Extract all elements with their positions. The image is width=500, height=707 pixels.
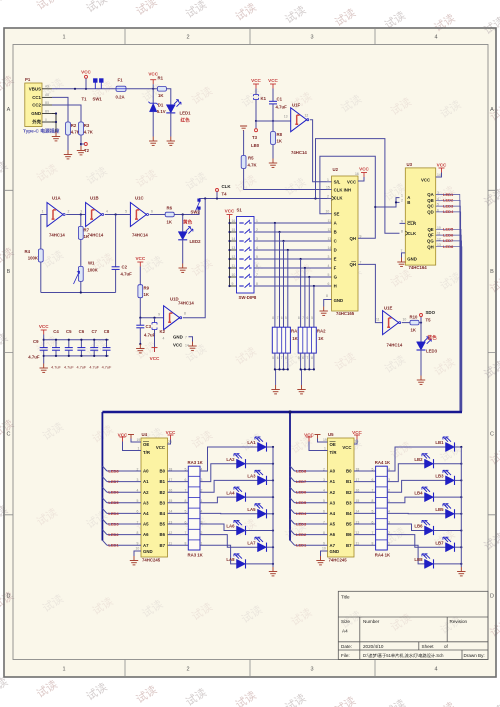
wire U4 input LED1 xyxy=(102,540,107,545)
LED LB2 xyxy=(422,454,434,469)
svg-text:14: 14 xyxy=(169,510,173,514)
svg-text:R3: R3 xyxy=(84,123,90,128)
wire U1A out to U1B in xyxy=(66,214,85,216)
resistor R3 xyxy=(79,122,84,135)
svg-text:A6: A6 xyxy=(330,532,336,537)
svg-text:15: 15 xyxy=(326,186,330,190)
resistor R10 xyxy=(410,320,419,325)
potentiometer W1 xyxy=(78,266,83,281)
svg-text:RA3 1K: RA3 1K xyxy=(188,460,204,465)
svg-text:红色: 红色 xyxy=(181,117,191,124)
capacitor C9 xyxy=(43,335,45,348)
svg-text:A5: A5 xyxy=(330,522,336,527)
svg-text:OE: OE xyxy=(330,442,336,447)
test point T1 xyxy=(85,75,88,78)
svg-text:10: 10 xyxy=(403,318,407,322)
svg-text:13: 13 xyxy=(284,115,288,119)
svg-text:8: 8 xyxy=(298,316,300,320)
svg-text:VCC: VCC xyxy=(251,78,261,83)
svg-text:15: 15 xyxy=(232,228,236,232)
svg-text:LED3: LED3 xyxy=(296,521,307,526)
svg-text:W1: W1 xyxy=(88,261,95,266)
svg-text:QH: QH xyxy=(350,262,356,267)
wire U4 B4 to RA3 xyxy=(168,512,189,514)
svg-text:A7: A7 xyxy=(143,543,149,548)
svg-text:GND: GND xyxy=(31,111,41,116)
svg-text:6: 6 xyxy=(277,356,279,360)
svg-text:18: 18 xyxy=(169,467,173,471)
svg-text:LED2: LED2 xyxy=(190,239,202,244)
svg-text:5: 5 xyxy=(298,356,300,360)
svg-text:16: 16 xyxy=(355,172,359,176)
wire U5 B0 to RA4 xyxy=(354,470,376,472)
svg-text:LED7: LED7 xyxy=(296,479,307,484)
svg-text:R9: R9 xyxy=(144,286,150,291)
svg-text:4: 4 xyxy=(137,489,139,493)
svg-text:1K: 1K xyxy=(292,336,298,341)
svg-text:C6: C6 xyxy=(79,329,85,334)
wire U3 QG / net LED7 xyxy=(436,241,462,412)
svg-text:SW2: SW2 xyxy=(191,210,201,215)
svg-text:QH: QH xyxy=(427,244,433,249)
svg-text:LED8: LED8 xyxy=(108,468,119,473)
svg-text:D: D xyxy=(334,248,337,253)
svg-text:3: 3 xyxy=(80,210,82,214)
wire S1 pin 3 to U2 xyxy=(254,240,332,242)
svg-text:QE: QE xyxy=(427,227,433,232)
wire U5 B7 to RA4 xyxy=(354,544,376,546)
svg-text:3: 3 xyxy=(323,478,325,482)
svg-text:B4: B4 xyxy=(346,511,352,516)
svg-text:12: 12 xyxy=(169,531,173,535)
svg-text:C9: C9 xyxy=(33,339,39,344)
wire CLK net xyxy=(199,198,327,200)
power port VCC (U5 T/R) xyxy=(306,437,312,442)
svg-text:8: 8 xyxy=(185,499,187,503)
svg-text:C1: C1 xyxy=(277,97,283,102)
svg-text:4.7uF: 4.7uF xyxy=(51,366,61,370)
svg-text:4: 4 xyxy=(163,337,165,341)
svg-text:LED6: LED6 xyxy=(296,490,307,495)
svg-text:LB6: LB6 xyxy=(414,524,423,529)
svg-text:R8: R8 xyxy=(277,132,283,137)
svg-text:8: 8 xyxy=(326,294,328,298)
svg-text:LED1: LED1 xyxy=(180,111,192,116)
svg-text:C: C xyxy=(334,239,337,244)
svg-text:LA5: LA5 xyxy=(247,507,256,512)
svg-text:LB2: LB2 xyxy=(414,457,423,462)
ground (LB bank) xyxy=(457,567,465,576)
svg-text:B0: B0 xyxy=(160,469,166,474)
svg-text:外壳: 外壳 xyxy=(32,119,41,126)
svg-text:K1: K1 xyxy=(261,96,267,101)
svg-text:A2: A2 xyxy=(143,490,149,495)
inverter U1B xyxy=(86,203,104,227)
svg-text:6: 6 xyxy=(372,520,374,524)
svg-text:4.7uF: 4.7uF xyxy=(102,366,112,370)
svg-text:74HC245: 74HC245 xyxy=(329,558,348,563)
svg-text:GND: GND xyxy=(407,257,417,262)
svg-text:VCC: VCC xyxy=(166,430,176,435)
wire U3 QD / net LED4 xyxy=(436,212,461,412)
svg-text:R10: R10 xyxy=(410,315,418,320)
svg-text:12: 12 xyxy=(305,114,309,118)
svg-text:B: B xyxy=(407,200,410,205)
wire LA7 anode xyxy=(200,535,258,548)
svg-text:4.7uF: 4.7uF xyxy=(276,105,288,110)
svg-text:LA7: LA7 xyxy=(247,540,256,545)
svg-text:B: B xyxy=(7,269,11,275)
svg-text:4: 4 xyxy=(434,35,437,41)
svg-text:Revision: Revision xyxy=(450,619,468,624)
svg-text:7: 7 xyxy=(372,489,374,493)
svg-text:D:\追梦\基于51单片机,流水灯\电路设计.Sch: D:\追梦\基于51单片机,流水灯\电路设计.Sch xyxy=(363,652,444,659)
svg-text:R2: R2 xyxy=(71,123,77,128)
svg-text:VCC: VCC xyxy=(342,445,351,450)
svg-text:74HC14: 74HC14 xyxy=(387,343,403,348)
svg-text:7: 7 xyxy=(360,260,362,264)
svg-text:RA3 1K: RA3 1K xyxy=(188,553,204,558)
wire S1 pin 8 to U2 xyxy=(254,285,332,287)
svg-text:LB4: LB4 xyxy=(414,490,423,495)
svg-text:1: 1 xyxy=(62,35,65,41)
svg-text:4: 4 xyxy=(328,264,330,268)
svg-text:C3: C3 xyxy=(146,324,152,329)
svg-text:16: 16 xyxy=(356,489,360,493)
svg-text:14: 14 xyxy=(356,510,360,514)
wire U4 input LED7 xyxy=(102,477,107,482)
svg-text:4.7uF: 4.7uF xyxy=(144,333,156,338)
wire S1 pin 5 to U2 xyxy=(254,258,332,260)
svg-text:14: 14 xyxy=(232,237,236,241)
svg-text:6: 6 xyxy=(151,210,153,214)
svg-text:1: 1 xyxy=(327,178,329,182)
svg-text:QA: QA xyxy=(427,192,433,197)
svg-text:B1: B1 xyxy=(346,479,352,484)
ground (LED1) xyxy=(167,137,175,146)
svg-text:F1: F1 xyxy=(118,78,124,83)
wire U4 B5 to RA3 xyxy=(168,523,189,525)
svg-text:9: 9 xyxy=(360,234,362,238)
wire CC2 to R3 xyxy=(52,105,81,122)
svg-text:A5: A5 xyxy=(45,93,49,97)
svg-text:黄色: 黄色 xyxy=(183,219,193,226)
svg-text:11: 11 xyxy=(328,219,332,223)
svg-text:14: 14 xyxy=(185,344,189,348)
wire decoupling rails xyxy=(44,339,109,341)
svg-text:6: 6 xyxy=(323,510,325,514)
wire U4 B0 to RA3 xyxy=(168,470,189,472)
svg-text:17: 17 xyxy=(356,478,360,482)
wire LA5 cathode xyxy=(267,513,274,515)
ground (R2) xyxy=(64,150,72,159)
svg-text:1: 1 xyxy=(138,447,140,451)
svg-text:B1: B1 xyxy=(160,479,166,484)
svg-text:1: 1 xyxy=(324,447,326,451)
svg-text:74HC14: 74HC14 xyxy=(88,233,104,238)
svg-text:B5: B5 xyxy=(45,101,49,105)
wire QH to SE feedback loop xyxy=(320,156,375,238)
svg-text:LED4: LED4 xyxy=(108,511,119,516)
svg-text:LED6: LED6 xyxy=(443,232,454,237)
wire U5 B1 to RA4 xyxy=(354,481,376,483)
switch SW1 xyxy=(94,79,103,89)
svg-text:A4: A4 xyxy=(143,511,149,516)
svg-text:6: 6 xyxy=(137,510,139,514)
svg-text:VCC: VCC xyxy=(173,343,183,348)
svg-text:6: 6 xyxy=(307,316,309,320)
svg-text:9: 9 xyxy=(158,313,160,317)
svg-text:T5: T5 xyxy=(426,318,432,323)
svg-text:B: B xyxy=(490,269,494,275)
svg-text:LED3: LED3 xyxy=(426,349,438,354)
svg-text:5: 5 xyxy=(372,510,374,514)
svg-text:LA3: LA3 xyxy=(247,474,256,479)
svg-text:RA4 1K: RA4 1K xyxy=(375,460,391,465)
svg-text:SW-DIP8: SW-DIP8 xyxy=(239,295,257,300)
svg-text:A9: A9 xyxy=(45,85,49,89)
power port VCC (decoupling rail) xyxy=(41,330,47,335)
power port VCC (S1 common) xyxy=(227,215,233,220)
wire U3 QF / net LED6 xyxy=(436,235,462,411)
svg-text:U1C: U1C xyxy=(135,196,144,201)
wire S1 pin 2 to U2 xyxy=(254,231,332,233)
wire U3 QC / net LED3 xyxy=(436,206,461,411)
svg-text:10: 10 xyxy=(232,273,236,277)
inverter U1C xyxy=(130,203,148,227)
svg-text:7: 7 xyxy=(185,531,187,535)
svg-text:1K: 1K xyxy=(277,139,283,144)
svg-text:2: 2 xyxy=(137,467,139,471)
svg-text:7: 7 xyxy=(137,520,139,524)
svg-text:VCC: VCC xyxy=(39,324,49,329)
ground (LA bank) xyxy=(269,567,277,576)
title block xyxy=(338,591,488,659)
svg-text:7: 7 xyxy=(281,356,283,360)
svg-text:LED4: LED4 xyxy=(296,511,307,516)
svg-text:LA4: LA4 xyxy=(226,490,235,495)
wire LA2 cathode xyxy=(246,463,274,465)
svg-text:LB3: LB3 xyxy=(435,474,444,479)
svg-text:LED4: LED4 xyxy=(443,209,454,214)
wire LA4 cathode xyxy=(246,496,274,498)
inverter U1D xyxy=(164,306,182,330)
wire R6 to SW2/LED2 xyxy=(174,210,199,215)
svg-text:U3: U3 xyxy=(407,162,413,167)
wire S1 pin 4 to U2 xyxy=(254,249,332,251)
wire LB3 cathode xyxy=(455,479,462,481)
power port VCC (U4 pin 20) xyxy=(168,440,171,445)
wire U5 B6 to RA4 xyxy=(354,534,376,536)
svg-text:RA2: RA2 xyxy=(317,329,326,334)
svg-text:U2: U2 xyxy=(333,167,339,172)
svg-text:CLK: CLK xyxy=(407,231,417,236)
wire LB8 cathode xyxy=(434,563,462,565)
svg-text:C: C xyxy=(490,432,494,438)
svg-text:74HC14: 74HC14 xyxy=(132,233,148,238)
svg-text:11: 11 xyxy=(376,318,380,322)
svg-text:U5: U5 xyxy=(328,432,334,437)
svg-text:8: 8 xyxy=(372,542,374,546)
wire LB6 cathode xyxy=(434,530,462,532)
resistor R2 xyxy=(66,122,71,135)
svg-text:19: 19 xyxy=(323,438,327,442)
wire LB2 cathode xyxy=(434,463,462,465)
svg-text:2: 2 xyxy=(186,667,189,673)
wire CC1 to R2 xyxy=(52,97,68,122)
ground (C3) xyxy=(136,344,144,353)
wire LA6 cathode xyxy=(246,530,274,532)
svg-text:20: 20 xyxy=(355,440,359,444)
svg-text:R6: R6 xyxy=(167,206,173,211)
svg-text:T3: T3 xyxy=(252,135,258,140)
svg-text:T1: T1 xyxy=(82,97,88,102)
ground (U3) xyxy=(397,258,405,267)
test point T4 / node CLK xyxy=(216,189,219,192)
svg-text:OE: OE xyxy=(143,442,149,447)
svg-text:LA2: LA2 xyxy=(226,457,235,462)
svg-text:8: 8 xyxy=(137,531,139,535)
key K1 xyxy=(254,95,259,100)
resistor R8 xyxy=(272,121,274,132)
wire U4 B7 to RA3 xyxy=(168,544,189,546)
svg-text:R4: R4 xyxy=(25,249,31,254)
svg-text:CLK: CLK xyxy=(222,184,232,189)
svg-text:QH: QH xyxy=(350,236,356,241)
svg-text:A4: A4 xyxy=(330,511,336,516)
svg-text:7: 7 xyxy=(302,316,304,320)
svg-text:U1E: U1E xyxy=(384,306,392,311)
svg-text:CLK: CLK xyxy=(334,196,344,201)
capacitor C6 xyxy=(80,340,82,348)
svg-text:5: 5 xyxy=(372,467,374,471)
LED LA3 xyxy=(255,470,267,485)
inverter U1A xyxy=(47,203,65,227)
ground (RA1) xyxy=(271,385,279,394)
svg-text:5: 5 xyxy=(185,467,187,471)
svg-text:LB7: LB7 xyxy=(435,540,444,545)
svg-text:GND: GND xyxy=(173,335,183,340)
svg-text:LED2: LED2 xyxy=(108,532,119,537)
capacitor C7 xyxy=(93,340,95,348)
wire U2 GND pin 8 xyxy=(324,300,332,307)
svg-text:VCC: VCC xyxy=(150,356,160,361)
svg-text:6: 6 xyxy=(281,316,283,320)
svg-text:A6: A6 xyxy=(143,532,149,537)
wire LB5 cathode xyxy=(455,513,462,515)
LED LA2 xyxy=(234,454,246,469)
svg-text:74HC14: 74HC14 xyxy=(178,301,194,306)
svg-text:A0: A0 xyxy=(143,469,149,474)
svg-text:LED6: LED6 xyxy=(108,490,119,495)
wire LA3 anode xyxy=(200,480,258,492)
svg-text:A1: A1 xyxy=(143,479,149,484)
LED LB6 xyxy=(422,520,434,535)
svg-text:C7: C7 xyxy=(91,329,97,334)
svg-text:8: 8 xyxy=(372,499,374,503)
wire U5 input LED4 xyxy=(290,508,295,513)
svg-text:18: 18 xyxy=(356,467,360,471)
svg-text:B6: B6 xyxy=(160,532,166,537)
wire U4 input LED3 xyxy=(102,519,107,524)
svg-text:File:: File: xyxy=(341,653,350,658)
wire LA8 cathode xyxy=(246,563,274,565)
LED LA5 xyxy=(255,504,267,519)
ground (R8) xyxy=(269,159,277,168)
svg-text:17: 17 xyxy=(169,478,173,482)
LED2 xyxy=(182,215,184,232)
wire GND/shell net xyxy=(52,114,56,123)
svg-text:R5: R5 xyxy=(248,156,254,161)
svg-text:LED1: LED1 xyxy=(296,543,307,548)
svg-text:F: F xyxy=(334,266,337,271)
svg-text:A3: A3 xyxy=(330,500,336,505)
wire U4 input LED5 xyxy=(102,498,107,503)
svg-text:2: 2 xyxy=(401,198,403,202)
ground bar (U5 OE) xyxy=(315,435,321,439)
wire U1D input node xyxy=(140,317,163,319)
svg-text:VCC: VCC xyxy=(421,178,430,183)
svg-text:A: A xyxy=(334,221,337,226)
wire QH to U3 A/B xyxy=(375,198,399,207)
wire LB8 anode xyxy=(387,545,424,564)
svg-text:74HC164: 74HC164 xyxy=(409,265,428,270)
svg-text:6: 6 xyxy=(372,478,374,482)
svg-text:D: D xyxy=(7,594,11,600)
power port VCC (U2) xyxy=(358,177,364,181)
resistor R1 xyxy=(157,87,166,92)
svg-text:B7: B7 xyxy=(346,543,352,548)
svg-text:19: 19 xyxy=(137,438,141,442)
svg-text:8: 8 xyxy=(272,316,274,320)
LED3 xyxy=(420,323,422,342)
wire LA6 anode xyxy=(200,524,237,531)
svg-text:LED7: LED7 xyxy=(443,238,454,243)
svg-text:5.1V: 5.1V xyxy=(157,109,166,114)
svg-text:VCC: VCC xyxy=(359,167,369,172)
power port VCC (R1 node) xyxy=(150,80,156,85)
svg-text:C4: C4 xyxy=(53,329,59,334)
svg-text:Size: Size xyxy=(341,619,350,624)
svg-text:LA6: LA6 xyxy=(226,524,235,529)
svg-text:U1F: U1F xyxy=(292,103,300,108)
svg-text:S1: S1 xyxy=(237,208,243,213)
ground (RA2) xyxy=(297,385,305,394)
svg-text:B4: B4 xyxy=(160,511,166,516)
LED LA7 xyxy=(255,537,267,552)
svg-text:5: 5 xyxy=(272,356,274,360)
wire S1 pin 6 to U2 xyxy=(254,267,332,269)
svg-text:Sheet: Sheet xyxy=(422,644,435,649)
svg-text:2: 2 xyxy=(323,467,325,471)
resistor R5 xyxy=(243,131,245,156)
svg-text:B7: B7 xyxy=(160,543,166,548)
svg-text:蓝色: 蓝色 xyxy=(428,334,438,341)
svg-text:7: 7 xyxy=(277,316,279,320)
svg-text:VCC: VCC xyxy=(352,430,362,435)
svg-text:8: 8 xyxy=(184,312,186,316)
wire LB5 anode xyxy=(387,512,445,514)
svg-text:U1A: U1A xyxy=(52,196,61,201)
wire VBUS net xyxy=(52,88,157,90)
svg-text:D1: D1 xyxy=(158,103,164,108)
capacitor C2 xyxy=(115,215,117,267)
wire LB1 cathode xyxy=(455,446,462,448)
svg-text:6: 6 xyxy=(328,282,330,286)
svg-text:0.2A: 0.2A xyxy=(116,95,125,100)
LED LA6 xyxy=(234,520,246,535)
wire U1E out to R10 xyxy=(402,322,410,324)
